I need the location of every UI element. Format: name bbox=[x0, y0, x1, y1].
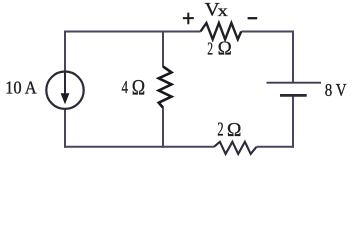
label plus sign bbox=[183, 13, 194, 25]
wire left upper bbox=[64, 31, 66, 72]
label 2 ohm top bbox=[207, 39, 232, 60]
svg-text:4: 4 bbox=[122, 77, 129, 97]
current source 10 A bbox=[46, 72, 83, 109]
resistor 4 ohm bbox=[159, 67, 172, 108]
label 2 ohm bottom bbox=[217, 119, 241, 141]
wire bottom-left segment bbox=[64, 146, 214, 148]
wire middle upper bbox=[162, 31, 164, 67]
svg-text:Ω: Ω bbox=[132, 74, 145, 99]
wire middle lower bbox=[162, 107, 164, 147]
wire top-right segment bbox=[241, 31, 294, 33]
wire right upper bbox=[292, 31, 294, 83]
wire bottom-right segment bbox=[257, 146, 295, 148]
resistor 2 ohm bottom bbox=[214, 142, 257, 154]
svg-text:Ω: Ω bbox=[218, 39, 232, 60]
resistor 2 ohm top bbox=[201, 23, 242, 39]
label Vx bbox=[205, 0, 228, 20]
wire top-left segment bbox=[65, 31, 201, 33]
wire left lower bbox=[64, 109, 66, 148]
svg-text:2: 2 bbox=[207, 39, 213, 59]
svg-text:8 V: 8 V bbox=[325, 80, 347, 100]
svg-text:Ω: Ω bbox=[227, 119, 242, 141]
battery 8 V bbox=[267, 83, 322, 96]
label minus sign bbox=[248, 17, 258, 19]
svg-text:x: x bbox=[218, 3, 229, 20]
label 4 ohm bbox=[122, 74, 146, 99]
svg-text:2: 2 bbox=[217, 119, 223, 141]
svg-text:10 A: 10 A bbox=[5, 77, 37, 97]
wire right lower bbox=[292, 95, 294, 147]
